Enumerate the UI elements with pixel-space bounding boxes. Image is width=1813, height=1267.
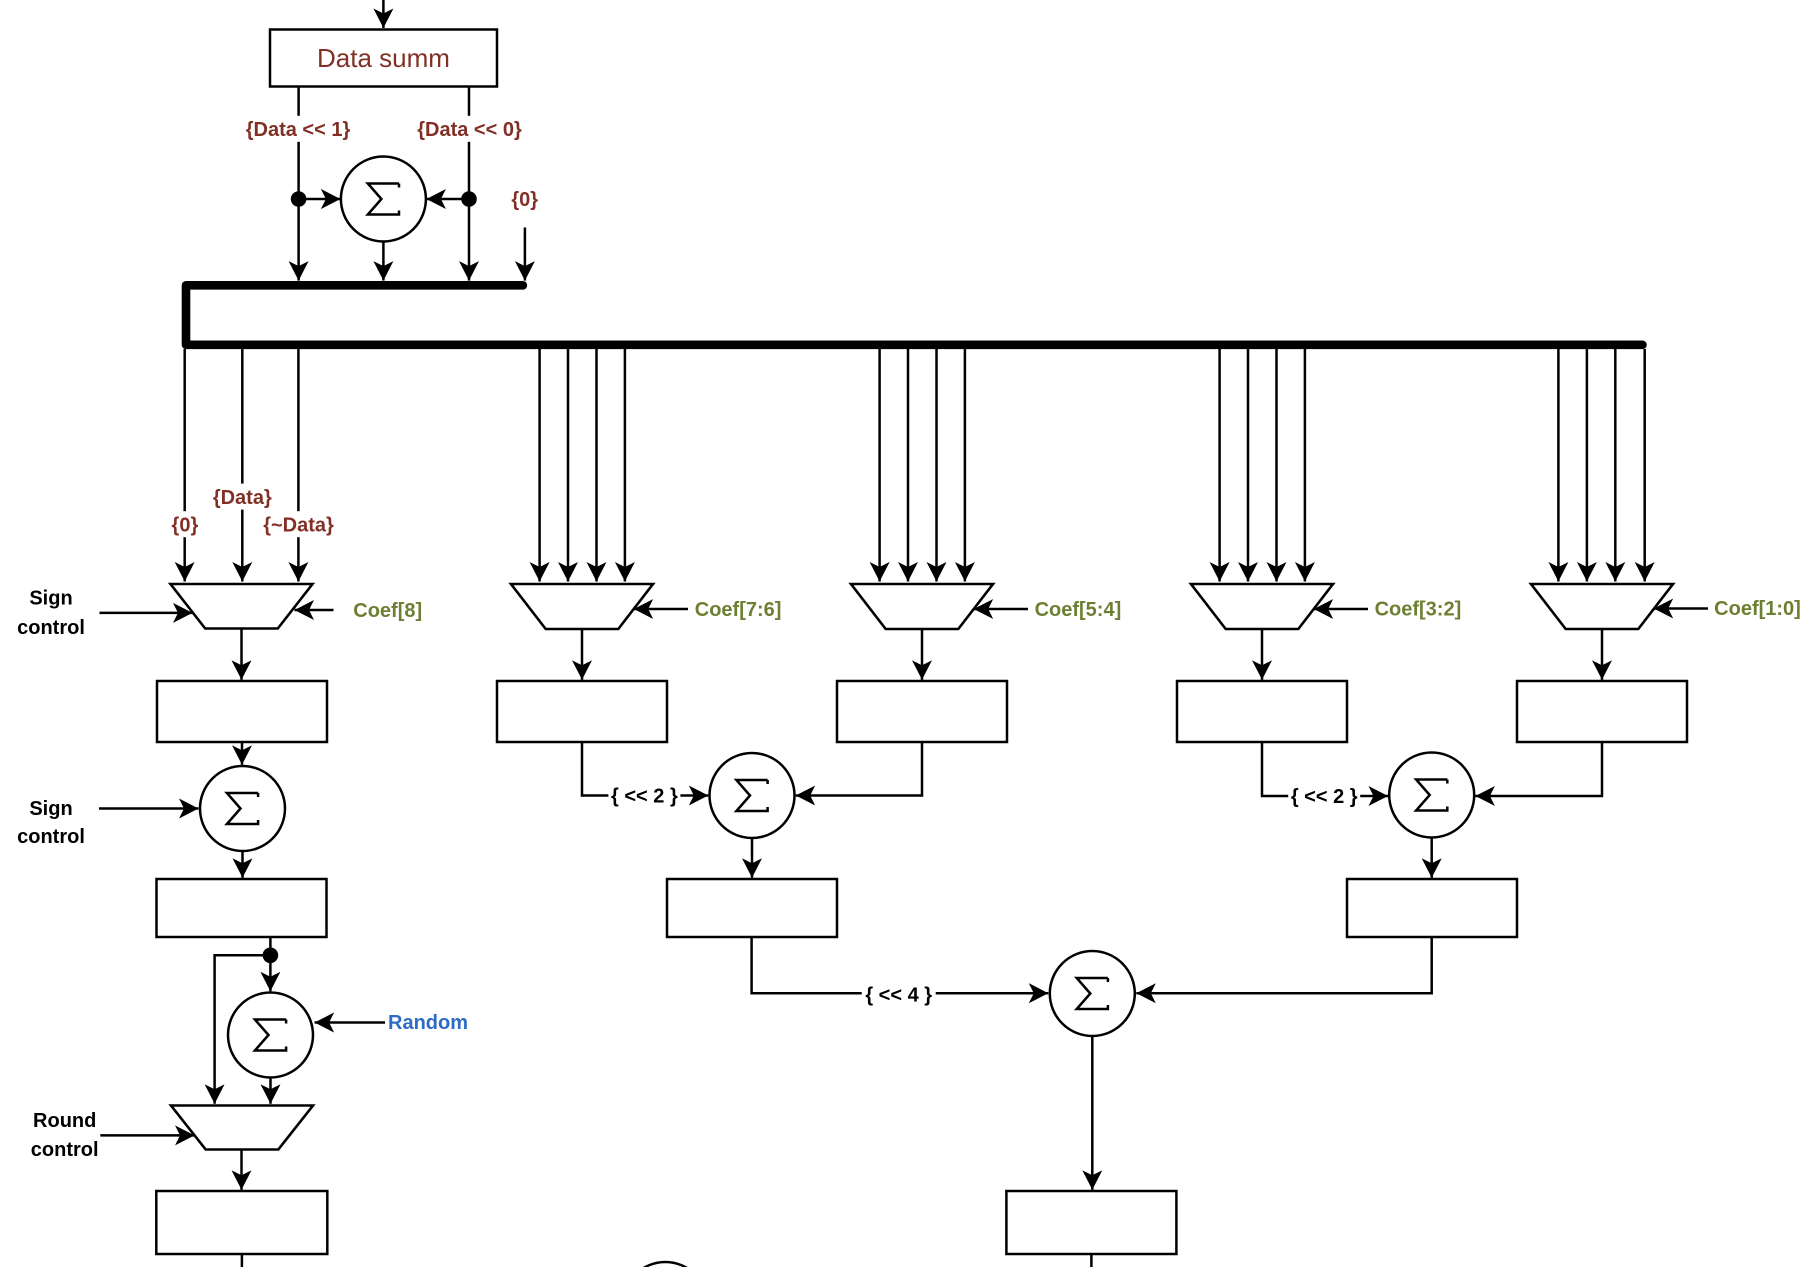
junction: Data<<1 tap [291,191,307,207]
wire: adder S6 output to register REG8 [1430,838,1433,878]
svg-text:Sign: Sign [29,588,72,610]
adder S1 [341,157,426,242]
svg-text:Random: Random [388,1012,468,1034]
wire: Coef[1:0] into mux M5 [1654,607,1708,610]
label {Data} [211,484,273,510]
wire: bus drops to mux M2 [540,349,625,582]
wire: Coef[8] into mux M1 [295,609,334,612]
wire: junction down into adder S3 [269,955,272,991]
label { << 4 } [862,981,936,1007]
wire: register REG6 output to junction [269,937,272,955]
wire: Data summ left output down to bus [297,86,300,281]
label { << 2 } right [1288,783,1360,809]
wire: bus drop {Data} to mux M1 [241,349,244,582]
svg-text:control: control [31,1139,99,1161]
svg-text:{~Data}: {~Data} [263,514,334,536]
wire: register REG8 output into adder S5 [1136,937,1431,993]
register REG5 [1517,681,1687,742]
wire: register REG10 output down [1090,1254,1093,1267]
wire: bus drops to mux M4 [1220,349,1305,582]
wire: {0} constant down to bus [524,228,527,281]
register REG4 [1177,681,1347,742]
wire: bus drops to mux M5 [1558,349,1644,582]
adder S3 [228,993,313,1078]
wire: mux M4 output to register REG4 [1261,629,1264,680]
adder S4 [710,753,795,838]
register REG9 [156,1191,327,1254]
mux M2 [511,584,653,629]
svg-text:{Data << 1}: {Data << 1} [246,119,351,141]
wire: register REG5 output into adder S6 [1475,742,1602,796]
register REG8 [1347,879,1517,937]
bus: thick data bus [186,285,1643,345]
wire: Sign control into adder S2 [99,807,199,810]
wire: Data summ right output down to bus [468,86,471,281]
wire: input into Data summ [382,0,385,28]
wire: adder S1 output down to bus [382,242,385,281]
label {~Data} [262,511,336,537]
mux M1 [171,584,313,629]
register REG2 [497,681,667,742]
svg-text:{0}: {0} [172,514,199,536]
wire: junction bypass to mux M6 [215,955,271,1104]
svg-text:Coef[7:6]: Coef[7:6] [695,599,782,621]
svg-text:{0}: {0} [511,189,538,211]
wire: register REG1 output to adder S2 [241,742,244,765]
adder S2 [200,766,285,851]
svg-text:control: control [17,617,85,639]
wire: register REG7 output shifted {<<4} into adder S5 [752,937,1049,993]
svg-text:{Data}: {Data} [213,487,272,509]
wire: Round control into mux M6 [100,1134,194,1137]
svg-text:{Data << 0}: {Data << 0} [417,119,522,141]
svg-text:Data summ: Data summ [317,43,450,73]
adder S6 [1389,753,1474,838]
wire: adder S4 output to register REG7 [751,838,754,878]
wire: Coef[3:2] into mux M4 [1314,608,1368,611]
junction: Data<<0 tap [461,191,477,207]
register REG1 [157,681,327,742]
label {Data << 1} [244,116,352,142]
wire: bus drop {0} to mux M1 [183,349,186,582]
wire: register REG2 output shifted {<<2} into adder S4 [582,742,708,796]
wire: mux M2 output to register REG2 [581,629,584,680]
wire: Sign control into mux M1 [100,612,193,615]
wire: register REG9 output down [241,1254,244,1267]
mux M6 [171,1106,313,1150]
wire: register REG3 output into adder S4 [796,742,922,796]
wire: bus drops to mux M3 [880,349,965,582]
adder S5 [1050,951,1135,1036]
mux M4 [1191,584,1333,629]
wire: adder S5 output to register REG10 [1091,1036,1094,1190]
label {0} mux M1 [169,511,201,537]
svg-text:{ << 2 }: { << 2 } [1291,786,1358,808]
wire: Coef[5:4] into mux M3 [974,608,1028,611]
register REG3 [837,681,1007,742]
register REG6 [157,879,327,937]
mux M3 [851,584,993,629]
wire: mux M6 output to register REG9 [240,1150,243,1190]
wire: adder S2 output to register REG6 [241,851,244,878]
svg-text:{ << 4 }: { << 4 } [865,985,932,1007]
block: Data summ [270,30,497,87]
adder S7 (clipped at bottom) [623,1262,708,1267]
svg-text:Round: Round [33,1110,96,1132]
register REG10 [1006,1191,1176,1254]
wire: bus drop {~Data} to mux M1 [297,349,300,582]
wire: mux M1 output to register REG1 [240,629,243,680]
wire: adder S3 output into mux M6 [269,1078,272,1104]
svg-text:Sign: Sign [29,798,72,820]
wire: register REG4 output shifted {<<2} into adder S6 [1262,742,1388,796]
svg-text:{ << 2 }: { << 2 } [611,786,678,808]
svg-text:Coef[1:0]: Coef[1:0] [1714,598,1801,620]
svg-text:Coef[5:4]: Coef[5:4] [1035,599,1122,621]
label { << 2 } left [608,783,680,809]
register REG7 [667,879,837,937]
wire: mux M5 output to register REG5 [1601,629,1604,680]
wire: right junction into adder S1 [426,198,469,201]
svg-text:Coef[3:2]: Coef[3:2] [1375,598,1462,620]
wire: Random into adder S3 [315,1021,385,1024]
svg-text:control: control [17,826,85,848]
wire: Coef[7:6] into mux M2 [634,608,688,611]
wire: mux M3 output to register REG3 [921,629,924,680]
junction: REG6 output tap [263,948,279,964]
wire: left junction into adder S1 [299,198,341,201]
svg-text:Coef[8]: Coef[8] [353,600,422,622]
label {Data << 0} [416,116,524,142]
label {0} top [509,186,541,212]
mux M5 [1531,584,1673,629]
